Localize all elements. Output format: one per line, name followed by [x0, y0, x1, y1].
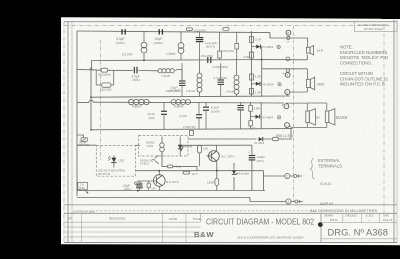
MID electrolytic centre 4.7uF: [218, 80, 225, 84]
svg-text:TA B.S.: TA B.S.: [140, 162, 149, 166]
revision table column after DATE: [185, 213, 187, 242]
sheet frame left chain-dot border: [63, 22, 65, 243]
resistor second small above HF rail: [223, 28, 229, 31]
resistor 2.2R 7W bass: [190, 130, 194, 135]
wire: vertical zener branch: [233, 163, 235, 170]
DRG header divider 1: [342, 213, 344, 222]
circled plus MID: [278, 83, 281, 86]
svg-text:(100V): (100V): [211, 109, 220, 113]
wire: L-pad shunt right: [113, 70, 115, 85]
GND terminal circle: [294, 175, 297, 178]
svg-text:CHAIN-DOT OUTLINE IS: CHAIN-DOT OUTLINE IS: [340, 76, 388, 81]
svg-text:7.5mH: 7.5mH: [161, 74, 170, 78]
resistor 0.5R 7W above HF rail: [186, 28, 192, 31]
BASS inductor 6.8mH in top rail: [129, 99, 150, 104]
molex pin BASS minus: [285, 123, 290, 128]
svg-text:4.7µF: 4.7µF: [179, 114, 187, 118]
GND arrow: [298, 175, 303, 178]
wire: leads: [163, 102, 165, 111]
circled plus BASS: [277, 116, 280, 119]
wire: HF speaker bottom vertical: [306, 55, 308, 60]
wire: BASS top rail left: [77, 101, 89, 103]
wire: MID return lead: [290, 91, 308, 93]
svg-text:150R: 150R: [207, 181, 215, 185]
fuse 1A box: [78, 182, 88, 190]
svg-text:(100V): (100V): [116, 41, 125, 45]
BASS row diode IN4004: [259, 137, 263, 141]
junction dot 47uF: [137, 190, 139, 192]
sheet frame bottom line: [64, 242, 397, 244]
MID plus terminal: [286, 69, 289, 72]
svg-text:24µF (NP): 24µF (NP): [166, 89, 180, 93]
LED symbol: [108, 155, 117, 167]
svg-text:2: 2: [286, 174, 288, 178]
BASS speaker 1 symbol: [306, 109, 316, 125]
svg-text:3rd ANGLE PROJECTION: 3rd ANGLE PROJECTION: [358, 24, 388, 27]
svg-text:0.5mH: 0.5mH: [226, 90, 235, 94]
svg-text:+: +: [282, 71, 285, 76]
HF ladder resistor 3.3R: [250, 52, 254, 58]
HF plus terminal circle: [287, 36, 290, 39]
wire: HF rail jog down: [270, 33, 308, 38]
diode IN4148 top: [179, 147, 183, 151]
LED dashed box: [96, 145, 135, 176]
svg-text:CONNECTIONS.: CONNECTIONS.: [340, 60, 372, 65]
revision table column before DATE: [161, 213, 163, 242]
wire: second rail upper left drop: [91, 61, 93, 70]
rear control box arrow: [82, 138, 86, 140]
svg-text:6.8mH: 6.8mH: [132, 105, 142, 109]
AMP terminal circle: [295, 200, 298, 203]
svg-text:REVISIONS: REVISIONS: [109, 217, 125, 221]
wire: T1 collector up: [158, 171, 160, 175]
svg-text:8.2Ω(3W): 8.2Ω(3W): [99, 72, 111, 76]
svg-text:4.7µF(NP): 4.7µF(NP): [214, 76, 228, 80]
rear control box: [81, 138, 87, 141]
wire: leads: [198, 102, 200, 115]
wire: BASS ladder vertical B: [260, 102, 262, 129]
svg-text:CHECKED: CHECKED: [345, 215, 357, 218]
svg-text:16-9-76: 16-9-76: [383, 218, 393, 222]
junction dot wiper/mid-return: [90, 96, 92, 98]
svg-text:0.2 mH: 0.2 mH: [122, 53, 133, 57]
electrolytic 47uF: [136, 184, 142, 188]
wire: leads: [240, 102, 242, 106]
wire: +7.4V row right: [173, 166, 197, 170]
wire: MID speaker feed vertical: [306, 69, 308, 80]
ink blot after title: [318, 222, 323, 227]
wire: HF speaker feed vertical: [307, 38, 309, 47]
wire: MID ladder vertical B: [261, 60, 263, 97]
BASS speaker 2 symbol: [325, 109, 335, 125]
svg-text:10K: 10K: [203, 147, 208, 151]
junction dot T1 rail: [158, 170, 160, 172]
revision table row line 3: [64, 231, 201, 233]
bass row resistor R58: [272, 137, 278, 140]
BASS shunt capacitor 8.2uF: [203, 107, 209, 110]
resistor 10K horizontal: [183, 171, 190, 174]
circled plus HF: [277, 45, 280, 48]
wire: bass diode row: [188, 138, 257, 140]
title strip top line: [64, 212, 397, 214]
svg-text:6.8R: 6.8R: [254, 106, 261, 110]
wire: HF ladder vertical: [251, 31, 253, 96]
MID inductor vertical right: [234, 60, 239, 96]
junction dot T2 rail: [216, 170, 218, 172]
resistor 15R 7W vertical: [219, 32, 221, 51]
inductor 0.2mH vertical: [141, 31, 147, 60]
svg-text:0.8mH: 0.8mH: [174, 105, 184, 109]
wire: BASS speaker 2 verticals: [326, 103, 328, 111]
svg-text:DENOTE ‘MOLEX’ PIN: DENOTE ‘MOLEX’ PIN: [340, 55, 388, 60]
sheet frame right inner line: [393, 20, 395, 243]
svg-text:10Ω(7W): 10Ω(7W): [222, 49, 234, 53]
wire: BASS bus horizontal bottom extension: [307, 126, 327, 128]
svg-text:CIRCUIT WITHIN: CIRCUIT WITHIN: [340, 71, 373, 76]
svg-text:DATE: DATE: [169, 217, 177, 221]
wire: amp jog: [250, 198, 286, 202]
svg-text:TERMINALS.: TERMINALS.: [318, 163, 343, 168]
BASS inductor 0.8mH in top rail: [171, 100, 190, 105]
svg-text:H.F.: H.F.: [317, 49, 324, 53]
note: pcb chain-dot: [340, 71, 388, 87]
svg-text:NOTE.: NOTE.: [340, 45, 353, 50]
resistor T1 base bias: [147, 183, 150, 188]
svg-text:3.3R: 3.3R: [255, 75, 262, 79]
svg-text:+: +: [248, 151, 250, 155]
wire: MID plus feed: [262, 68, 308, 70]
svg-text:IN4148: IN4148: [183, 145, 192, 149]
capacitor 3.3uF series in HF rail: [122, 29, 125, 34]
svg-text:+: +: [281, 103, 284, 108]
wire: T2 collector up: [216, 145, 218, 151]
svg-text:R58 (1-4)Ω: R58 (1-4)Ω: [276, 134, 293, 138]
transistor T2 BC107: [207, 151, 220, 162]
revision table title cell edge: [200, 213, 202, 222]
wire: L-pad lower wire to coil: [138, 70, 158, 72]
svg-text:LED: LED: [118, 159, 125, 163]
svg-text:(S.B.): (S.B.): [79, 187, 85, 190]
svg-text:DO NOT SCALE: DO NOT SCALE: [364, 28, 383, 31]
svg-text:ALL DIMENSIONS IN MILLIMETR: ALL DIMENSIONS IN MILLIMETRES: [310, 208, 377, 213]
svg-text:EXTERNAL: EXTERNAL: [318, 158, 341, 163]
title block divider before DRG box: [320, 213, 322, 242]
inductor 1.0mH vertical: [178, 31, 184, 60]
wire: resistor leads: [263, 138, 273, 140]
wire: MID return rail: [91, 96, 290, 97]
svg-text:BASS: BASS: [336, 115, 347, 120]
transistor MJE34: [152, 155, 159, 164]
svg-text:MOUNTED ON P.C.B.: MOUNTED ON P.C.B.: [340, 82, 386, 87]
svg-text:9v1(3w): 9v1(3w): [239, 172, 250, 176]
revision table row line 1: [64, 221, 201, 223]
wire: leads: [181, 63, 183, 81]
wire: T1 base left: [138, 180, 157, 182]
BASS electrolytic 2.2uF: [237, 106, 244, 110]
wire: MID speaker bottom vertical: [306, 88, 308, 93]
wire: 10K vertical leads: [199, 153, 201, 166]
wire: T2 emitter down: [216, 161, 218, 162]
wire: 47uF leads: [138, 188, 140, 191]
wire: BASS top rail hop over wiper: [89, 100, 93, 102]
HF ladder resistor 10R: [250, 37, 254, 43]
wire: BASS top rail: [93, 101, 284, 104]
rear control wiper arrow: [89, 68, 92, 70]
svg-text:AMP IN: AMP IN: [320, 202, 333, 206]
sheet frame right chain-dot border: [383, 26, 385, 214]
wire: vertical T1 emitter lower: [216, 186, 218, 191]
svg-text:10 R: 10 R: [255, 38, 262, 42]
wire: HF top rail: [77, 31, 270, 33]
svg-text:B.C 107A: B.C 107A: [222, 155, 235, 159]
capacitor 6.8uF series second rail right: [208, 57, 211, 63]
wire: BASS bus top: [286, 102, 307, 105]
copyright dotted rule: [96, 210, 316, 212]
svg-text:CIRCUIT DIAGRAM - MODEL 802: CIRCUIT DIAGRAM - MODEL 802: [206, 216, 314, 226]
resistor 10R 7W vertical: [236, 32, 238, 43]
wire: vertical electrolytic branch lower: [251, 161, 253, 191]
capacitor 10uF series in HF rail: [159, 29, 162, 34]
DRG box lower line: [321, 238, 397, 240]
sheet frame inner left line: [71, 22, 73, 243]
L-pad shunt resistor 15R: [102, 83, 111, 87]
svg-text:P.R.B.: P.R.B.: [330, 218, 338, 222]
wire: second rail upper (HF return): [92, 59, 262, 62]
svg-text:1.5mH: 1.5mH: [186, 89, 195, 93]
PCB chain-dot outline vertical left: [100, 40, 102, 160]
revision table row line 2: [64, 226, 201, 228]
resistor on 7.4 row: [167, 165, 172, 168]
svg-text:4: 4: [287, 200, 289, 204]
svg-text:COPYRIGHT B&W: COPYRIGHT B&W: [73, 209, 96, 213]
electrolytic 100uF: [249, 156, 256, 160]
svg-text:+: +: [280, 200, 283, 205]
svg-text:COIL: COIL: [147, 144, 154, 148]
electrolytic 47uF positive plate: [135, 182, 141, 184]
molex pin MID plus: [285, 73, 290, 78]
svg-text:(16V): (16V): [257, 159, 264, 163]
molex pin BASS plus: [284, 104, 289, 109]
molex pin GND: [285, 173, 290, 178]
svg-text:0.5Ω(7W): 0.5Ω(7W): [195, 28, 206, 32]
BASS ladder resistor upper 6.8R: [249, 105, 253, 111]
DRG box header cell line: [321, 222, 397, 224]
svg-text:B.C 107A: B.C 107A: [166, 180, 179, 184]
svg-text:G.N.D.: G.N.D.: [320, 181, 332, 186]
BASS capacitor 4.7uF NP: [196, 115, 202, 118]
svg-text:IN 4004: IN 4004: [263, 45, 274, 49]
note: molex pins: [340, 45, 388, 66]
svg-text:+7.4: +7.4: [174, 165, 181, 169]
wire: BASS bus horizontal top extension: [307, 102, 327, 104]
wire: MID pin stem: [286, 95, 288, 96]
third angle projection box: [355, 22, 398, 32]
wire: vertical electrolytic branch: [251, 145, 253, 154]
svg-text:2.2Ω(7W): 2.2Ω(7W): [183, 125, 195, 129]
svg-text:IN 4004: IN 4004: [263, 83, 274, 87]
wire: vertical gnd branch: [263, 171, 265, 191]
wire: BASS bus bottom: [289, 126, 307, 127]
bass coil diode IN4148: [178, 137, 182, 156]
AMP arrow: [299, 200, 304, 203]
DRG header divider 3: [379, 213, 381, 222]
svg-text:(100 V): (100 V): [206, 44, 215, 48]
svg-text:3.3R: 3.3R: [243, 55, 250, 59]
wire: protection feed link: [135, 144, 140, 146]
HF diode IN4004: [252, 44, 262, 59]
svg-text:ENCIRCLED NUMBERS: ENCIRCLED NUMBERS: [340, 50, 388, 55]
wire: after coil to electrolytic branch: [175, 70, 182, 82]
svg-text:(16V): (16V): [124, 187, 131, 191]
wire: bass diode row to chain node: [282, 129, 292, 139]
scanned white page: [61, 17, 400, 245]
svg-text:1.5R: 1.5R: [250, 127, 257, 131]
wire: leads: [220, 63, 222, 80]
sheet frame top line: [64, 21, 397, 23]
brace for external terminals: [310, 158, 314, 179]
wire: gnd row: [264, 175, 285, 177]
wire: lower rail to amp: [77, 197, 250, 199]
BASS COIL dashed box: [139, 136, 189, 157]
revision table column No: [80, 213, 82, 242]
wire: pin to terminal: [290, 175, 294, 177]
MID inductor vertical left: [197, 60, 202, 96]
sheet frame bottom line above title strip: [64, 204, 397, 206]
svg-text:IN 4004: IN 4004: [263, 115, 274, 119]
wire: vertical zener branch lower: [233, 177, 235, 191]
wire: vertical T1 emitter: [216, 162, 218, 179]
sheet frame right outer line: [396, 20, 398, 243]
zener diode 9v1: [232, 170, 238, 174]
svg-text:DRG. Nº A368: DRG. Nº A368: [328, 228, 389, 238]
inductor 1.5mH horizontal in L-pad wire: [158, 69, 174, 73]
svg-text:10K: 10K: [151, 186, 156, 190]
wire: BASS lower rail: [91, 129, 293, 130]
wire: +7.4V row: [162, 152, 167, 167]
MID ladder resistor upper: [250, 74, 254, 80]
MID electrolytic left: [179, 81, 186, 85]
molex pin AMP: [286, 199, 291, 204]
wire: protection feed right: [178, 144, 252, 146]
resistor 10K vertical: [198, 146, 202, 154]
wire: wiper vertical: [90, 70, 92, 130]
wire: L-pad lower wire mid: [108, 69, 134, 71]
transistor T1 BC107: [154, 175, 166, 187]
svg-text:—: —: [368, 218, 371, 222]
wire: BASS speaker 1 verticals: [306, 103, 308, 111]
BASS ladder diode IN4004: [251, 115, 262, 119]
svg-text:(50V): (50V): [133, 78, 140, 82]
molex pin HF plus: [286, 30, 291, 35]
svg-text:MII: MII: [316, 116, 320, 120]
wire: L-pad lower wire: [77, 68, 102, 71]
PCB chain-dot outline vertical right: [293, 26, 295, 203]
note: external terminals: [318, 158, 343, 168]
wire: protection feed: [77, 144, 96, 146]
svg-text:(100V): (100V): [154, 41, 163, 45]
junction dot rail2/B: [261, 59, 263, 61]
svg-text:MID.: MID.: [317, 82, 325, 86]
wire: T1 emitter down: [158, 186, 160, 190]
sheet frame outer left line: [67, 22, 69, 243]
electrolytic stack capacitor 4+4+4uF: [196, 38, 204, 42]
bass coil inductor: [160, 137, 165, 156]
svg-text:TITLE:-: TITLE:-: [193, 217, 203, 221]
svg-text:B&W: B&W: [194, 230, 214, 239]
MID speaker symbol: [307, 77, 315, 90]
fuse pointer arrow: [85, 190, 89, 193]
MID diode IN4004: [252, 82, 262, 86]
wire: left main rail vertical: [76, 31, 78, 196]
svg-text:+: +: [287, 39, 290, 44]
BASS shunt capacitor 24uF: [161, 111, 167, 114]
wire: stack cap leads: [199, 32, 201, 38]
wire: protection bottom rail: [77, 190, 265, 192]
molex pin MID minus: [285, 90, 290, 95]
HF minus terminal: [286, 57, 290, 61]
svg-text:CONTROL: CONTROL: [78, 144, 91, 147]
svg-text:(NP): (NP): [149, 116, 155, 120]
wire: pin to terminal: [291, 201, 295, 203]
svg-text:15Ω(3W): 15Ω(3W): [100, 88, 112, 92]
sheet frame top chain-dot border: [64, 25, 390, 27]
MID ladder resistor lower: [250, 89, 254, 95]
wire: BASS ladder vertical A: [250, 102, 252, 129]
svg-text:10 K: 10 K: [192, 172, 198, 176]
svg-text:ON P.C.B.: ON P.C.B.: [98, 172, 111, 176]
BASS ladder resistor lower: [249, 121, 253, 126]
wire: protection mid rail: [136, 170, 264, 172]
capacitor 3.3uF 50V series in L-pad wire: [134, 67, 137, 74]
wire: shunt joins: [96, 84, 102, 86]
svg-text:3.3R: 3.3R: [255, 91, 262, 95]
svg-text:IN 4004: IN 4004: [255, 141, 265, 145]
resistor 150R vertical: [215, 179, 219, 186]
wire: leads: [205, 102, 207, 107]
HF speaker symbol: [306, 46, 313, 55]
svg-text:( B & W LOUDSPEAKERS LTD ): ( B & W LOUDSPEAKERS LTD ) WORTHING SUSS…: [237, 236, 304, 240]
wire: L-pad shunt left: [95, 70, 97, 85]
svg-text:1.0mH: 1.0mH: [166, 52, 176, 56]
junction dot wiper/bass-lower: [90, 129, 92, 131]
wire: HF return: [262, 59, 308, 61]
revision table row line 4: [64, 236, 201, 238]
DRG header divider 2: [361, 213, 363, 222]
L-pad series resistor 8R2: [101, 68, 108, 72]
wire: rear control stub: [77, 135, 84, 138]
